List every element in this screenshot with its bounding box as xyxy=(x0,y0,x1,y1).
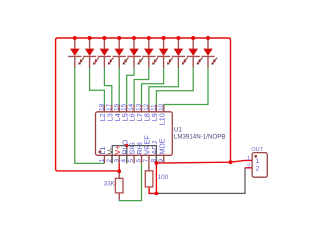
svg-text:16: 16 xyxy=(113,103,120,111)
svg-text:1: 1 xyxy=(247,156,250,162)
svg-text:14: 14 xyxy=(128,103,135,111)
svg-text:1: 1 xyxy=(256,158,260,165)
svg-text:2: 2 xyxy=(256,166,260,173)
svg-text:15: 15 xyxy=(121,103,128,111)
svg-text:6: 6 xyxy=(136,159,143,163)
svg-text:33K: 33K xyxy=(104,180,116,187)
svg-text:1: 1 xyxy=(98,159,105,163)
svg-text:13: 13 xyxy=(136,103,143,111)
svg-text:11: 11 xyxy=(150,104,157,111)
svg-text:MDE: MDE xyxy=(157,138,166,154)
svg-text:3: 3 xyxy=(113,159,120,163)
svg-text:9: 9 xyxy=(158,159,165,163)
svg-text:18: 18 xyxy=(98,103,105,111)
svg-text:5: 5 xyxy=(128,159,135,163)
svg-text:10: 10 xyxy=(158,103,165,111)
svg-text:12: 12 xyxy=(143,103,150,111)
svg-text:17: 17 xyxy=(106,103,113,111)
svg-text:LM3914N-1/NOPB: LM3914N-1/NOPB xyxy=(174,133,226,140)
svg-text:2: 2 xyxy=(247,164,250,170)
svg-text:100: 100 xyxy=(158,174,169,181)
svg-text:OUT: OUT xyxy=(251,147,263,153)
svg-text:7: 7 xyxy=(143,159,150,163)
svg-text:L10: L10 xyxy=(157,113,166,125)
